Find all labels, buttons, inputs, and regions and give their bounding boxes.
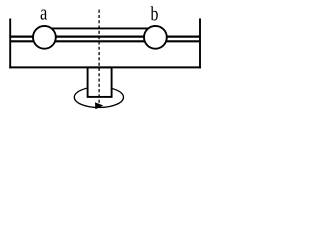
water surface line 1 <box>10 35 200 37</box>
rotation arrowhead <box>95 102 103 109</box>
water surface line 2 <box>10 40 200 42</box>
dashed rotation axis <box>98 10 100 103</box>
rotation ellipse arrow (turntable circulation) <box>74 87 123 108</box>
tank bottom <box>9 66 201 68</box>
ball a <box>33 26 56 49</box>
ball b <box>144 26 167 49</box>
shaft (axle below tank) <box>88 67 112 97</box>
rod connecting ball a and ball b <box>48 27 152 29</box>
tank left wall <box>9 19 11 69</box>
label b <box>151 6 158 20</box>
tank right wall <box>199 18 201 68</box>
label a <box>41 9 47 19</box>
